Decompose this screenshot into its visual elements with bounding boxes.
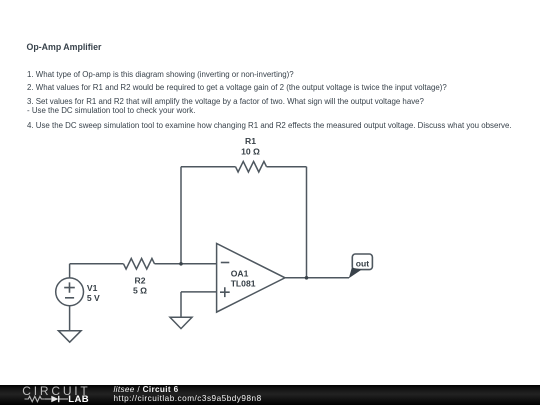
wire to ground (non-inverting input) xyxy=(180,292,182,317)
resistor R1 xyxy=(236,161,267,172)
wire feedback top-left xyxy=(181,166,236,168)
op-amp OA1 xyxy=(217,244,285,313)
svg-text:TL081: TL081 xyxy=(231,278,256,288)
net flag out xyxy=(349,254,373,278)
wire feedback left vertical xyxy=(180,167,182,264)
svg-text:out: out xyxy=(356,259,369,269)
wire feedback top-right xyxy=(267,166,307,168)
wire V1 to R2 xyxy=(70,263,124,265)
footer logo LAB xyxy=(68,394,89,405)
wire non-inverting input xyxy=(181,291,217,293)
question 4 xyxy=(27,121,512,130)
svg-text:V1: V1 xyxy=(87,283,98,293)
question 3 xyxy=(27,97,424,115)
title xyxy=(27,42,102,52)
svg-text:R1: R1 xyxy=(245,136,256,146)
footer bar xyxy=(0,385,540,405)
ground (V1) xyxy=(58,331,81,343)
question 1 xyxy=(27,70,294,79)
wire V1 top vertical xyxy=(69,264,71,278)
svg-text:10 Ω: 10 Ω xyxy=(241,146,260,156)
svg-text:R2: R2 xyxy=(135,275,146,285)
footer text xyxy=(114,385,179,394)
footer logo resistor-diode glyph xyxy=(23,394,73,404)
wire output xyxy=(285,277,349,279)
svg-text:5 V: 5 V xyxy=(87,293,100,303)
question 2 xyxy=(27,83,447,92)
footer logo CIRCUIT xyxy=(22,384,90,398)
node A (junction R2 / feedback / op-amp input) xyxy=(179,262,183,266)
svg-text:5 Ω: 5 Ω xyxy=(133,286,147,296)
voltage source V1 xyxy=(56,278,84,306)
svg-text:OA1: OA1 xyxy=(231,269,249,279)
wire R2 to op-amp inverting input xyxy=(155,263,217,265)
node out (junction feedback / output) xyxy=(305,276,309,280)
ground (non-inverting input) xyxy=(170,317,192,328)
wire feedback right vertical xyxy=(306,167,308,278)
wire V1 bottom vertical xyxy=(69,306,71,331)
resistor R2 xyxy=(124,258,155,269)
